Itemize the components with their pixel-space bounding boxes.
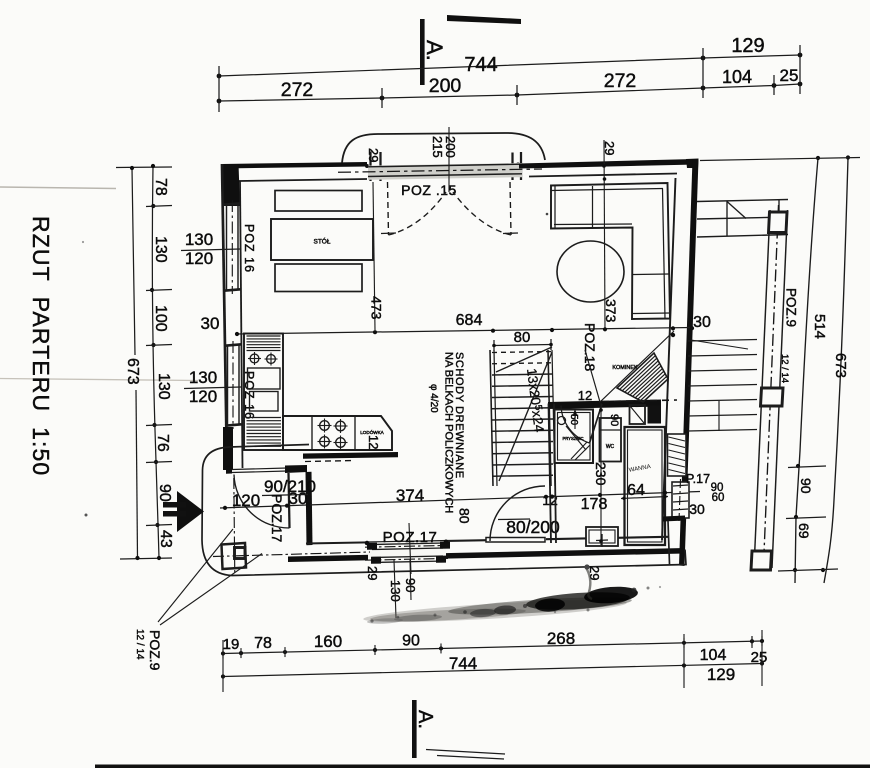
svg-text:473: 473 [369,296,385,320]
svg-text:64: 64 [627,482,645,499]
svg-text:KOMINEK: KOMINEK [612,365,638,371]
svg-text:514: 514 [811,314,828,339]
svg-text:104: 104 [722,67,752,87]
svg-text:90: 90 [608,414,620,426]
svg-text:120: 120 [232,491,260,510]
svg-text:STÓŁ: STÓŁ [314,237,331,246]
svg-text:φ 4/20: φ 4/20 [428,384,439,413]
svg-text:684: 684 [456,312,483,329]
svg-text:78: 78 [254,635,272,652]
svg-text:POZ .15: POZ .15 [401,182,457,198]
svg-text:80: 80 [457,508,473,524]
svg-text:268: 268 [547,629,575,648]
svg-text:200: 200 [429,75,462,97]
svg-text:30: 30 [693,314,711,331]
svg-text:129: 129 [731,35,764,57]
svg-text:90: 90 [156,484,173,502]
svg-text:673: 673 [124,358,141,385]
svg-text:90: 90 [402,633,420,650]
svg-text:178: 178 [581,496,608,513]
svg-text:120: 120 [189,387,217,406]
svg-text:160: 160 [314,632,342,651]
svg-text:POZ.9: POZ.9 [784,288,799,327]
svg-text:29: 29 [366,148,381,162]
svg-text:100: 100 [152,305,169,332]
svg-text:WC: WC [606,444,615,450]
svg-text:215: 215 [430,136,445,158]
svg-text:120: 120 [185,249,213,268]
svg-text:12 / 14: 12 / 14 [779,354,790,383]
svg-text:A.: A. [422,40,447,61]
svg-text:78: 78 [152,178,169,196]
svg-text:PRYSZNIC: PRYSZNIC [562,436,583,441]
svg-text:130: 130 [155,373,172,400]
svg-text:P.17: P.17 [686,472,710,486]
svg-text:19: 19 [223,636,240,653]
svg-text:104: 104 [700,647,727,664]
svg-text:12: 12 [578,388,592,403]
svg-text:POZ.18: POZ.18 [582,323,598,371]
svg-text:60: 60 [712,492,725,504]
svg-text:25: 25 [780,66,799,85]
svg-text:76: 76 [154,434,171,452]
svg-text:90: 90 [798,478,814,494]
svg-text:129: 129 [707,665,735,684]
svg-text:43: 43 [157,530,174,548]
svg-text:12 / 14: 12 / 14 [134,629,145,660]
svg-text:POZ.17: POZ.17 [383,529,438,546]
svg-text:272: 272 [604,70,637,92]
svg-text:POZ 16: POZ 16 [242,224,256,273]
svg-text:373: 373 [603,299,619,323]
svg-text:A.: A. [414,710,436,729]
svg-text:29: 29 [365,566,380,580]
svg-text:30: 30 [201,314,220,333]
svg-text:POZ.9: POZ.9 [147,630,163,671]
svg-text:12: 12 [366,435,381,449]
svg-text:NA BELKACH POLICZKOWYCH: NA BELKACH POLICZKOWYCH [443,352,455,513]
svg-text:744: 744 [449,654,477,673]
svg-text:130: 130 [185,230,213,249]
svg-text:673: 673 [832,353,849,378]
svg-text:69: 69 [796,523,812,539]
svg-text:230: 230 [593,462,609,486]
svg-text:130: 130 [152,236,169,263]
svg-text:744: 744 [464,54,497,76]
svg-text:374: 374 [396,486,424,505]
svg-text:29: 29 [602,141,617,155]
svg-text:272: 272 [281,79,314,101]
svg-text:80/200: 80/200 [506,517,560,537]
svg-text:30: 30 [689,501,705,517]
svg-text:POZ.17: POZ.17 [269,494,285,542]
svg-text:RZUT PARTERU 1:50: RZUT PARTERU 1:50 [28,216,54,476]
svg-text:130: 130 [189,368,217,387]
svg-text:80: 80 [514,329,531,346]
